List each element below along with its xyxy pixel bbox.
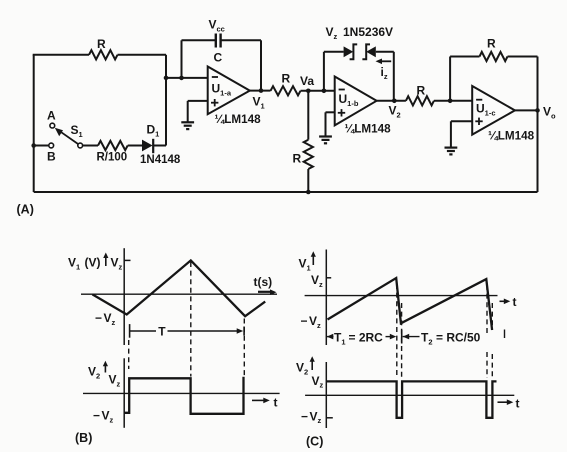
axis B-bottom vertical [123,358,125,428]
tick Vz (B-top) [124,259,130,261]
waveform V2 square (C) [326,381,496,417]
svg-text:−: − [301,314,308,328]
label U1-c [476,102,496,118]
wire U1-c feedback right [508,57,538,193]
label Vz (C-bottom) [312,374,324,390]
svg-text:Vo: Vo [543,105,556,121]
svg-text:Vz: Vz [310,409,322,425]
svg-text:Vz: Vz [104,311,116,327]
svg-text:Vz: Vz [311,273,323,289]
tick -Vz (C-bottom) [326,417,333,419]
label U1-a [212,82,232,98]
svg-text:Vcc: Vcc [209,18,225,34]
node U1-c inverting [448,99,453,104]
label R/100 [97,152,128,164]
svg-text:T: T [158,324,166,338]
label U1-b [339,92,359,108]
svg-text:Vz: Vz [312,374,324,390]
terminal B [49,143,54,148]
svg-text:Vz: Vz [309,314,321,330]
wire top-left segment to resistor R [33,54,89,56]
wire U1-a non-inverting to ground [188,101,208,122]
dashed line at triangle trough [243,319,245,376]
wire D1 to inverting branch [153,145,166,147]
node Va [306,89,311,94]
label Vz (C-top) [311,273,323,289]
measure T2 bar [401,330,403,344]
svg-text:V1: V1 [68,256,80,272]
svg-text:R: R [282,72,291,86]
svg-text:¼LM148: ¼LM148 [215,113,262,126]
node V1 [259,88,264,93]
waveform V1 triangle (B) [92,260,265,316]
svg-text:(A): (A) [17,203,34,217]
svg-text:V2: V2 [88,365,100,381]
svg-text:V2: V2 [296,361,308,377]
node inverting input U1-a [164,76,169,81]
axis C-bottom horizontal [305,394,514,396]
svg-text:1N5236V: 1N5236V [343,25,393,39]
svg-text:(V): (V) [85,256,101,270]
axis B-bottom horizontal [83,392,280,394]
wire U1-b non-inverting to ground [326,112,335,135]
dashed line at first trough [128,340,130,369]
label -Vz (C-bottom) [301,409,322,425]
label 1/4LM148 (U1-c) [488,130,535,143]
waveform V2 square (B) [124,377,243,414]
label Vz (B-bottom) [109,373,121,389]
label R (Va shunt) [293,152,302,166]
wire U1-a output [250,90,271,92]
wire top to inverting branch [118,55,167,146]
wire capacitor feedback left [182,40,216,78]
resistor R (V1 to Va) [271,86,301,95]
resistor R (U1-a input from rail) [89,50,118,59]
measure T2 left arrow [403,334,420,340]
svg-text:iz: iz [381,65,388,81]
label 1/4LM148 (U1-b) [345,123,392,136]
svg-text:T1: T1 [334,331,346,347]
wire to U1-c inverting [434,100,472,102]
switch S1 pivot [78,143,83,148]
label V1 (V) (B-top) [68,256,101,272]
ground (U1-c) [445,148,458,155]
label V2 (C-bottom) [296,361,308,377]
svg-text:Va: Va [300,74,314,88]
label t (B-bottom) [274,396,278,410]
axis t arrow (B-bottom) [252,398,270,404]
svg-text:S1: S1 [71,123,83,139]
wire to Va [301,90,335,92]
op-amp U1-a minus sign [212,76,218,78]
node Vo [535,108,540,113]
label Vz 1N5236V [326,25,394,41]
node zener tap [322,89,327,94]
wire R/100 to D1 [128,145,142,147]
wire zener feedback left [324,52,344,91]
arrow up (C-bottom) [310,356,315,370]
resistor R (Va to ground rail) [304,140,313,169]
label V1 (C-top) [299,257,311,273]
wire U1-c output [515,109,538,111]
label V1 [253,95,265,111]
node B junction [31,143,36,148]
label (A) [17,203,34,217]
dashed pair first fall (C) [397,284,402,378]
measure T bars [130,324,245,338]
svg-text:R/100: R/100 [97,152,128,164]
label R (U1-c feedback) [487,37,496,51]
svg-text:V1: V1 [253,95,265,111]
arrow up (C-top) [311,251,316,265]
label Vz (B-top) [111,256,123,272]
waveform V1 sawtooth (C) [328,278,493,330]
wire to terminal B [34,145,49,147]
svg-text:R: R [293,152,302,166]
label -Vz (C-top) [301,314,322,330]
op-amp U1-b [335,77,377,126]
label Vcc [209,18,225,34]
svg-text:R: R [97,37,106,51]
resistor R (U1-c feedback) [480,52,508,61]
label i-z [381,65,388,81]
svg-text:R: R [487,37,496,51]
svg-text:V2: V2 [389,104,401,120]
label T [158,324,166,338]
op-amp U1-b plus sign [338,109,345,116]
svg-text:(C): (C) [306,435,323,449]
label V2 [389,104,401,120]
label 1N4148 [140,154,181,166]
label T1 = 2RC [334,331,383,347]
svg-text:−: − [95,311,102,325]
svg-text:1N4148: 1N4148 [140,154,181,166]
svg-text:T2: T2 [421,331,433,347]
ground (U1-b) [319,137,332,144]
label t(s) [254,275,273,289]
zener diode Z2 [362,44,375,59]
svg-text:A: A [47,109,56,123]
op-amp U1-c [472,86,515,135]
svg-text:t: t [513,295,517,309]
stray dash mark [504,330,506,339]
label R (V2 to U1-c) [417,84,426,98]
wire capacitor feedback right [221,40,261,90]
arrow up (B-bottom) [103,361,108,373]
label 1/4LM148 (U1-a) [215,113,262,126]
svg-text:¼LM148: ¼LM148 [345,123,392,136]
op-amp U1-c plus sign [475,118,482,125]
axis B-top horizontal [81,289,277,295]
svg-text:B: B [47,150,56,164]
capacitor C [216,34,221,48]
diode D1 [142,139,153,153]
label -Vz (B-bottom) [93,409,114,425]
measure T1 left arrow [327,334,334,340]
axis t arrow (C-top) [500,299,511,305]
svg-text:Vz: Vz [109,373,121,389]
label A [47,109,56,123]
svg-text:Vz: Vz [326,25,338,41]
label Va [300,74,314,88]
wire pivot to R/100 [83,145,98,147]
ground (U1-a) [181,122,194,129]
svg-text:t: t [274,396,278,410]
svg-text:V1: V1 [299,257,311,273]
svg-text:D1: D1 [147,123,160,139]
svg-text:U1-b: U1-b [339,92,359,108]
svg-text:Vz: Vz [111,256,123,272]
measure T1 right arrow [386,334,397,340]
terminal A [50,123,55,128]
label (B) [75,431,92,445]
wire U1-c feedback left [450,57,479,101]
resistor R (V2 to U1-c) [406,96,434,105]
svg-text:= RC/50: = RC/50 [436,331,481,345]
wire zener feedback right [376,52,394,101]
svg-text:C: C [214,51,223,65]
measure T line [130,328,244,334]
svg-text:= 2RC: = 2RC [349,331,384,345]
svg-text:t(s): t(s) [254,275,273,289]
svg-text:R: R [417,84,426,98]
dashed pair second fall (C) [487,285,492,378]
zener diode Z1 [344,44,358,59]
op-amp U1-a [208,67,250,115]
op-amp U1-a plus sign [211,99,218,106]
label B [47,150,56,164]
arrow up (B-top) [103,253,108,267]
label T2 = RC/50 [421,331,481,347]
node rail junction [306,190,311,195]
label R (V1 to Va) [282,72,291,86]
op-amp U1-b minus sign [339,89,345,91]
wire U1-c non-inverting to ground [451,121,472,147]
dashed line at triangle peak [190,262,192,377]
resistor R/100 [98,141,128,150]
label t (C-top) [513,295,517,309]
svg-text:(B): (B) [75,431,92,445]
label V2 (B-bottom) [88,365,100,381]
switch S1 arm [55,128,80,146]
svg-text:t: t [516,397,520,411]
label Vo [543,105,556,121]
wire bottom rail [34,191,538,193]
wire U1-a inverting input [166,77,208,79]
axis t arrow (C-bottom) [498,399,514,405]
label D1 [147,123,160,139]
svg-text:U1-c: U1-c [476,102,496,118]
label -Vz (B-top) [95,311,116,327]
wire resistor to rail [307,169,309,192]
tick Vz (C-top) [326,277,331,279]
label S1 [71,123,83,139]
wire Va down [307,91,309,140]
svg-text:−: − [301,409,308,423]
label R (top-left resistor) [97,37,106,51]
wire U1-b output [377,100,406,102]
svg-text:U1-a: U1-a [212,82,232,98]
label (C) [306,435,323,449]
svg-text:¼LM148: ¼LM148 [488,130,535,143]
label t (C-bottom) [516,397,520,411]
wire left vertical rail [33,55,35,192]
node V2 [392,99,397,104]
svg-text:−: − [93,409,100,423]
axis C-bottom vertical [325,362,327,428]
label C [214,51,223,65]
axis C-top vertical [325,250,327,346]
current arrow i-z [376,59,392,65]
node capacitor feedback tap [179,76,184,81]
op-amp U1-c minus sign [476,99,482,101]
svg-text:Vz: Vz [102,409,114,425]
axis C-top horizontal [305,295,498,297]
axis B-top vertical [123,248,125,345]
